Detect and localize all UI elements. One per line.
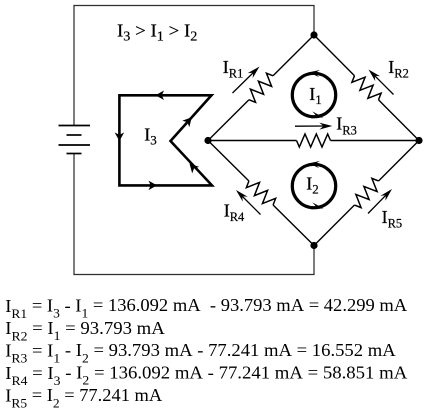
wire bottom: battery negative to bottom node xyxy=(74,154,314,275)
node top xyxy=(310,31,317,38)
wire R5 lead to node xyxy=(379,141,419,181)
current arrow IR2 xyxy=(369,70,394,95)
wire R3 lead from node xyxy=(208,140,297,142)
node right xyxy=(415,137,422,144)
mesh loop I1 arrow top xyxy=(309,70,320,77)
current arrow IR4 xyxy=(236,190,261,215)
label inequality I3 > I1 > I2 xyxy=(117,21,197,44)
mesh loop I3 arrow bottom (right) xyxy=(149,181,158,191)
wire R1 lead to node xyxy=(273,35,314,76)
wire R3 lead to node xyxy=(331,140,420,142)
mesh loop I3 arrow upper diagonal (up-right) xyxy=(182,117,192,127)
wire R4 lead to node xyxy=(273,205,314,246)
mesh loop I3 arrow left (down) xyxy=(115,133,125,142)
wire R2 lead to node xyxy=(378,100,419,141)
wire R4 lead from node xyxy=(208,141,249,182)
node bottom xyxy=(310,242,317,249)
mesh loop I3 path xyxy=(119,95,212,185)
wire R2 lead from node xyxy=(314,35,355,76)
mesh loop I1 arrow bottom xyxy=(311,111,323,118)
equation line 3 xyxy=(5,341,396,366)
resistor R4 xyxy=(246,181,275,205)
mesh loop I2 circle xyxy=(292,164,335,207)
mesh loop I3 arrow top (left) xyxy=(156,91,165,101)
resistor R3 xyxy=(297,134,331,147)
resistor R5 xyxy=(354,178,378,207)
node left xyxy=(204,137,211,144)
mesh loop I3 arrow lower diagonal (up-left) xyxy=(190,164,200,174)
mesh loop I2 arrow top xyxy=(309,161,320,168)
mesh loop I2 arrow bottom xyxy=(311,202,323,209)
current arrow IR3 xyxy=(295,123,332,130)
wire top: battery positive to top node xyxy=(74,6,314,126)
mesh loop I1 circle xyxy=(292,73,335,116)
current arrow IR1 xyxy=(233,67,260,94)
equation line 5 xyxy=(5,385,162,410)
wire R1 lead from node xyxy=(208,100,249,141)
wire R5 lead from node xyxy=(314,205,354,245)
equation line 1 xyxy=(5,296,407,321)
equation line 2 xyxy=(5,318,165,343)
current arrow IR5 xyxy=(368,189,392,214)
battery B1 xyxy=(59,126,91,154)
resistor R2 xyxy=(352,76,381,100)
equation line 4 xyxy=(5,363,407,388)
resistor R1 xyxy=(249,73,273,102)
